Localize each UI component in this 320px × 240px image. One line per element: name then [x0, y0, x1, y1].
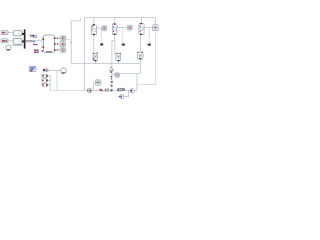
- wire: bottom chain horizontal mid segment: [93, 89, 131, 91]
- wire: rail B vertical upper: [111, 41, 113, 68]
- wire: signal box S2 to relay K2: [8, 40, 15, 42]
- wire: signal box S1 to relay K1: [8, 32, 15, 34]
- wire: right edge vertical below J6: [137, 31, 155, 85]
- pin U1 left1: [42, 38, 44, 40]
- wire: fuse F2 down to relay B2: [114, 35, 116, 54]
- wire: stack box SB1 stub: [48, 75, 51, 77]
- fuse F3: [139, 23, 144, 35]
- relay B2: [116, 53, 121, 62]
- fuse F2: [112, 23, 117, 35]
- U1 bottom label bar: [46, 51, 52, 52]
- red dot on wire1: [57, 38, 58, 39]
- wire: corner feed y20.9 with jog up to top rail: [71, 17, 80, 21]
- wire: L-link from connector J down to chain: [93, 83, 95, 90]
- terminal T2: [60, 42, 66, 47]
- circle connector CL: [88, 88, 92, 92]
- wire: fuse F2 top stub: [114, 17, 116, 23]
- wire: fuse F1 down to relay B1: [93, 35, 95, 53]
- wire: fuse F1 to terminal J4: [97, 27, 102, 29]
- wire: fuse F3 to terminal J6: [144, 27, 153, 29]
- wire: mid horizontal rail y63.7: [71, 63, 140, 65]
- element R2: [105, 89, 109, 91]
- tick mark on vertical: [70, 42, 72, 44]
- background: [0, 0, 160, 120]
- wire: drop from top rail into terminal J6: [154, 17, 156, 24]
- red tick left of CB: [119, 96, 120, 97]
- wire: component C to terminal E: [112, 73, 115, 75]
- wire: top supply rail upper y17.4: [85, 16, 156, 18]
- pin U1 right3: [54, 49, 56, 51]
- wire: U1 pin2 to terminal T2: [56, 43, 61, 45]
- signal box S2: [1, 39, 8, 43]
- label stack right of rail B: [111, 76, 112, 77]
- dark red speck above label block: [33, 44, 34, 45]
- blue box label L1: [29, 66, 36, 71]
- terminal E: [115, 73, 120, 77]
- wire: lower circle CB up to main chain: [124, 90, 129, 96]
- wire: element F to circle G: [48, 69, 61, 71]
- element E1 (double circle): [117, 89, 121, 91]
- wire: vertical jog x41.8 at U1 left: [41, 36, 43, 47]
- wire: stub down to connector arrow P1: [100, 28, 102, 43]
- wire: vertical x137 down to bottom loop: [136, 73, 138, 90]
- pin K1: [22, 33, 24, 35]
- main module U1: [44, 35, 55, 53]
- label module with red and blue text: [30, 35, 34, 38]
- wire: stub down to connector arrow P3: [148, 28, 150, 44]
- stack box SB3: [42, 83, 48, 86]
- circle connector G: [61, 68, 67, 74]
- tiny red label left of wire: [26, 41, 27, 42]
- terminal J4: [102, 26, 107, 31]
- fuse F1: [91, 24, 96, 35]
- wire: link terminal T1 to vertical: [66, 38, 72, 40]
- terminal T1: [60, 36, 66, 41]
- gray box H: [34, 35, 36, 38]
- wire: branch y73.4 from terminal E to chain: [119, 72, 140, 74]
- terminal J5: [127, 25, 132, 30]
- wire: fuse F3 top stub: [140, 17, 142, 23]
- wire: relay B1 bottom stub to mid rail: [95, 61, 97, 63]
- wire: bottom chain horizontal left segment: [50, 89, 88, 91]
- wire: stub down to connector arrow P2: [122, 28, 124, 44]
- wire: circle I to bus bar: [11, 45, 24, 47]
- net label text row1: [34, 49, 36, 51]
- wire: relay B2 bottom stub to mid rail: [118, 60, 120, 63]
- stack box SB2: [42, 79, 48, 82]
- pin U1 left2: [42, 46, 44, 48]
- stack box SB1: [42, 74, 48, 77]
- circle connector I: [6, 45, 11, 50]
- wire: stack box SB2 stub: [48, 80, 51, 82]
- wire: U1 pin3 to terminal T3: [56, 49, 61, 51]
- terminal T3: [60, 48, 66, 53]
- pin U1 right1: [54, 38, 56, 40]
- wire: vertical x71.2 from corner down to mid rail: [70, 21, 72, 64]
- connector pair circles on wire: [29, 40, 31, 42]
- wire: module D down to branch corner: [140, 59, 142, 73]
- connector arrow P3: [147, 44, 150, 46]
- element F: [43, 69, 48, 72]
- resistor R1: [100, 89, 103, 91]
- red label on rail B: [111, 85, 112, 87]
- element E2 (double circle): [121, 88, 125, 90]
- component C (lamp on rail B): [110, 67, 114, 72]
- wire: stack bus vertical x49.6: [49, 76, 51, 91]
- wire: branch y40.8 to rail B corner: [112, 40, 115, 42]
- junction tick left of CL: [87, 90, 88, 91]
- red dot on wire2: [57, 43, 58, 44]
- connector arrow P1: [100, 43, 103, 45]
- wire: bus bar to module U1 left pin: [25, 40, 42, 42]
- relay B1: [93, 53, 98, 62]
- relay K1: [13, 31, 22, 36]
- wire: U1 pin1 to terminal T1: [56, 37, 61, 39]
- wire: fuse F1 top stub from top rail: [93, 17, 95, 25]
- wire: stack box SB3 stub: [48, 84, 51, 86]
- wire: rail B vertical lower: [111, 73, 113, 91]
- pin K2: [22, 40, 24, 42]
- module D: [138, 52, 144, 60]
- signal box S1: [1, 31, 8, 35]
- pin U1 right2: [54, 43, 56, 45]
- relay K2: [13, 38, 22, 44]
- wire: vertical x57 down to bottom chain: [56, 70, 58, 90]
- ground bus bar: [24, 29, 26, 48]
- terminal J6: [153, 25, 159, 31]
- red dot on wire3: [57, 49, 58, 50]
- blue speck right of label: [42, 50, 44, 52]
- wire: fuse F3 down to module D: [140, 35, 142, 53]
- circle connector CR: [130, 89, 134, 93]
- wire: bottom chain right circle to vertical: [134, 90, 137, 92]
- wire: fuse F2 to terminal J5: [117, 27, 128, 29]
- net label text row2: [34, 51, 36, 53]
- connector J with circle: [95, 80, 101, 85]
- wire: rail A vertical x84.6: [84, 17, 86, 90]
- connector arrow P2: [121, 43, 124, 45]
- junction node on bottom chain: [111, 90, 113, 92]
- circle connector CB (lower): [120, 95, 124, 99]
